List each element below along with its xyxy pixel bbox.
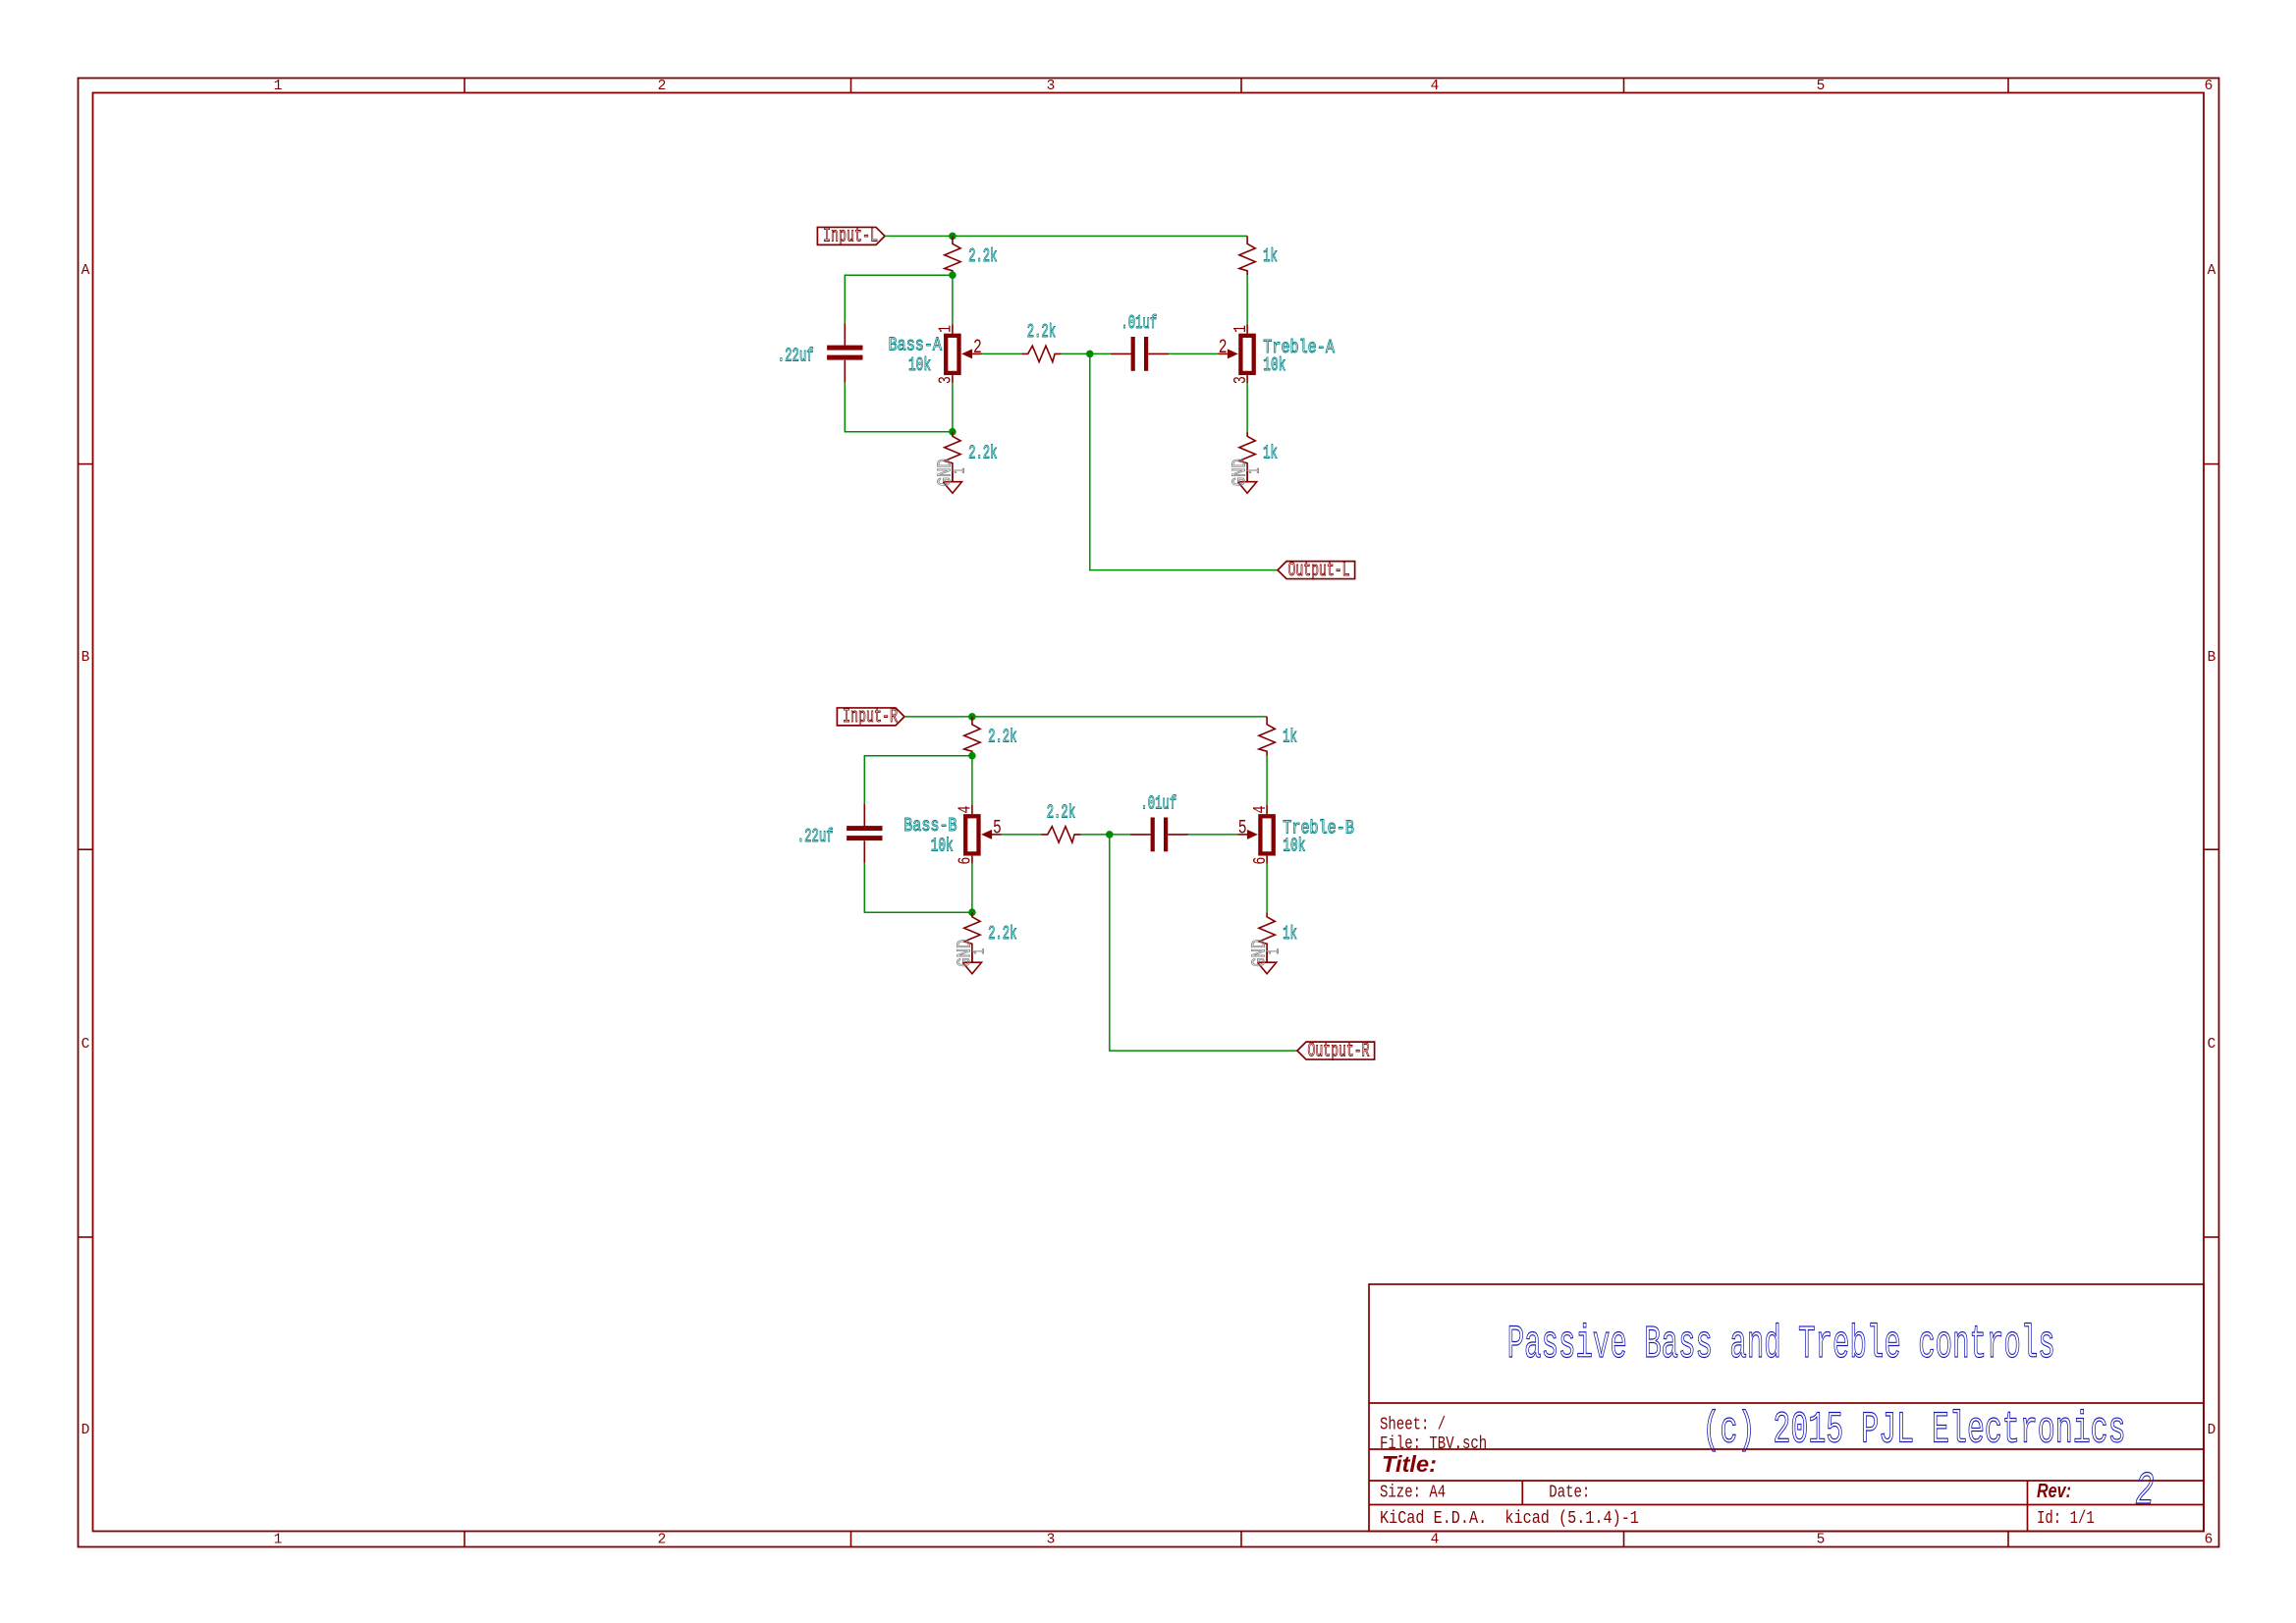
wire Input-L bus top (885, 235, 1247, 237)
svg-text:1: 1 (1246, 468, 1265, 474)
svg-text:4: 4 (957, 806, 976, 814)
svg-text:10k: 10k (908, 354, 931, 376)
svg-text:1: 1 (1231, 325, 1251, 333)
title block outline (1369, 1284, 2204, 1532)
svg-text:Passive Bass and Treble contro: Passive Bass and Treble controls (1507, 1320, 2055, 1372)
wire resistor to output node (1081, 834, 1130, 836)
wire bass wiper to resistor (982, 352, 1022, 354)
svg-text:D: D (82, 1423, 90, 1438)
resistor 2.2k bass-A to ground (945, 432, 960, 482)
wire treble pot pin bottom (1266, 864, 1268, 913)
svg-text:Bass-A: Bass-A (889, 334, 943, 355)
ground treble-A (1246, 471, 1248, 481)
svg-text:2.2k: 2.2k (988, 923, 1016, 945)
svg-text:3: 3 (1047, 1533, 1056, 1548)
capacitor .01uf mid-B (1130, 834, 1151, 836)
svg-text:1: 1 (937, 325, 957, 333)
resistor 1k treble-A to ground (1239, 432, 1255, 482)
svg-text:2.2k: 2.2k (988, 726, 1016, 747)
wire output drop (1110, 835, 1297, 1051)
resistor 2.2k mid-B (1041, 827, 1080, 842)
resistor 2.2k mid-A (1021, 346, 1061, 361)
svg-text:1: 1 (1266, 948, 1285, 954)
svg-text:1: 1 (274, 79, 283, 94)
svg-text:6: 6 (1251, 857, 1271, 865)
svg-text:KiCad E.D.A. kicad (5.1.4)-1: KiCad E.D.A. kicad (5.1.4)-1 (1380, 1508, 1639, 1529)
svg-text:.22uf: .22uf (797, 826, 834, 847)
svg-text:2: 2 (2136, 1466, 2155, 1518)
svg-text:2: 2 (1219, 337, 1228, 359)
svg-text:B: B (82, 650, 90, 666)
svg-text:.22uf: .22uf (778, 346, 814, 367)
svg-text:1k: 1k (1283, 726, 1297, 747)
svg-text:5: 5 (993, 818, 1002, 840)
resistor 2.2k series-A upper (945, 236, 960, 275)
svg-text:Title:: Title: (1382, 1451, 1437, 1477)
wire bass pot pin bottom (952, 383, 954, 432)
resistor 2.2k bass-B to ground (964, 912, 980, 962)
svg-text:4: 4 (1251, 806, 1271, 814)
wire bass wiper to resistor (1002, 834, 1042, 836)
svg-text:1k: 1k (1283, 923, 1297, 945)
svg-text:10k: 10k (931, 836, 954, 857)
svg-text:2: 2 (658, 1533, 667, 1548)
svg-text:4: 4 (1431, 1533, 1440, 1548)
svg-text:Input-R: Input-R (843, 706, 898, 729)
potentiometer Bass-B 10k (965, 816, 978, 853)
svg-text:D: D (2208, 1423, 2216, 1438)
resistor 1k treble-B to ground (1259, 912, 1275, 962)
hierarchical label Output-L (1278, 562, 1355, 579)
wire treble pot pin top (1266, 756, 1268, 805)
svg-text:3: 3 (937, 376, 957, 384)
potentiometer Bass-A 10k (946, 336, 958, 373)
wire resistor to output node (1062, 352, 1111, 354)
svg-text:Rev:: Rev: (2037, 1481, 2071, 1502)
svg-text:Date:: Date: (1549, 1483, 1590, 1503)
capacitor .01uf mid-A (1111, 352, 1131, 354)
node bass top junction (949, 271, 957, 279)
svg-text:1k: 1k (1263, 245, 1278, 267)
svg-text:A: A (82, 263, 90, 279)
svg-text:.01uf: .01uf (1140, 793, 1176, 815)
title block column lines (1521, 1481, 1523, 1505)
svg-text:Bass-B: Bass-B (903, 815, 957, 837)
resistor 2.2k series-B upper (964, 717, 980, 756)
svg-text:1: 1 (274, 1533, 283, 1548)
title block row lines (1369, 1402, 2204, 1404)
svg-text:C: C (82, 1037, 90, 1053)
svg-text:6: 6 (2205, 1533, 2214, 1548)
potentiometer Treble-A 10k (1240, 336, 1253, 373)
svg-text:Sheet: /: Sheet: / (1380, 1415, 1446, 1435)
svg-text:1: 1 (951, 468, 969, 474)
svg-text:5: 5 (1238, 818, 1247, 840)
wire left branch to cap (845, 275, 953, 323)
potentiometer Treble-B 10k (1260, 816, 1273, 853)
svg-text:5: 5 (1817, 1533, 1826, 1548)
hierarchical label Input-R (837, 708, 904, 726)
svg-text:1: 1 (970, 948, 989, 954)
svg-text:.01uf: .01uf (1121, 312, 1157, 334)
wire bass pot pin bottom (971, 864, 973, 913)
svg-text:6: 6 (2205, 79, 2214, 94)
node bass bottom junction (968, 908, 976, 916)
svg-text:3: 3 (1231, 376, 1251, 384)
ground bass-A (952, 471, 954, 481)
svg-text:5: 5 (1817, 79, 1826, 94)
wire bass pot pin top (971, 756, 973, 805)
hierarchical label Input-L (817, 227, 885, 244)
svg-text:10k: 10k (1263, 354, 1285, 376)
svg-text:2.2k: 2.2k (968, 245, 997, 267)
wire left branch to cap (864, 756, 972, 804)
svg-text:1k: 1k (1263, 443, 1278, 464)
svg-text:Input-L: Input-L (823, 226, 878, 248)
resistor 1k treble-B upper (1259, 717, 1275, 756)
ground bass-B (971, 952, 973, 962)
svg-text:2: 2 (658, 79, 667, 94)
svg-text:3: 3 (1047, 79, 1056, 94)
node input junction (968, 713, 976, 721)
wire treble pot pin bottom (1246, 383, 1248, 432)
wire cap bottom to junction (845, 382, 953, 431)
svg-text:(c) 2015 PJL Electronics: (c) 2015 PJL Electronics (1703, 1406, 2126, 1456)
resistor 1k treble-A upper (1239, 236, 1255, 275)
wire bass pot pin top (952, 275, 954, 324)
svg-text:B: B (2208, 650, 2216, 666)
node output junction (1086, 351, 1094, 358)
wire cap to treble wiper (1169, 352, 1218, 354)
hierarchical label Output-R (1297, 1042, 1375, 1059)
svg-text:Size: A4: Size: A4 (1380, 1483, 1446, 1503)
svg-text:2.2k: 2.2k (968, 443, 997, 464)
node output junction (1106, 831, 1114, 839)
svg-text:Output-L: Output-L (1288, 560, 1350, 582)
capacitor .22uf bass-B (863, 804, 865, 827)
svg-text:4: 4 (1431, 79, 1440, 94)
svg-text:Output-R: Output-R (1308, 1040, 1370, 1062)
node bass bottom junction (949, 428, 957, 436)
svg-text:2.2k: 2.2k (1047, 802, 1075, 824)
node bass top junction (968, 752, 976, 760)
svg-text:C: C (2208, 1037, 2216, 1053)
svg-text:A: A (2208, 263, 2216, 279)
capacitor .22uf bass-A (844, 323, 846, 346)
node input junction (949, 233, 957, 241)
wire output drop (1090, 353, 1278, 569)
ground treble-B (1266, 952, 1268, 962)
svg-text:2: 2 (973, 337, 982, 359)
wire cap bottom to junction (864, 863, 972, 912)
wire treble pot pin top (1246, 275, 1248, 324)
svg-text:10k: 10k (1283, 835, 1305, 856)
wire Input-R bus top (904, 716, 1267, 718)
svg-text:2.2k: 2.2k (1027, 321, 1056, 343)
svg-text:6: 6 (957, 857, 976, 865)
wire cap to treble wiper (1188, 834, 1237, 836)
svg-text:Id: 1/1: Id: 1/1 (2037, 1508, 2095, 1529)
